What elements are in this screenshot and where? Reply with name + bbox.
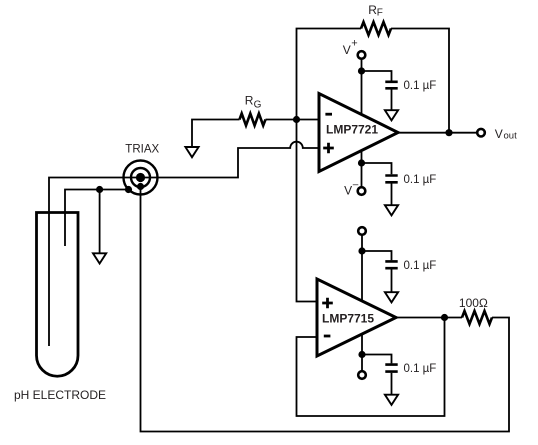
TRIAX inner shield circle [131, 168, 150, 187]
terminal V- circle [358, 187, 366, 195]
wire: C1 to ground [391, 90, 393, 111]
svg-text:TRIAX: TRIAX [125, 143, 159, 155]
TRIAX center pin dot [136, 173, 145, 182]
svg-text:V: V [343, 43, 351, 57]
op-amp U2 LMP7715 [317, 279, 396, 356]
svg-text:–: – [353, 179, 359, 190]
wire: outer shield to electrode reference + ground [65, 190, 129, 247]
svg-text:LMP7721: LMP7721 [326, 122, 378, 136]
wire: shield ground drop [99, 190, 101, 254]
wire: C4 to ground [391, 373, 393, 395]
svg-text:+: + [351, 38, 357, 50]
svg-text:R: R [245, 94, 254, 108]
ground (C4) [385, 395, 398, 405]
wire: U2 output to 100 ohm resistor [396, 317, 462, 319]
U1 minus sign [325, 113, 332, 116]
svg-text:100Ω: 100Ω [459, 296, 488, 310]
terminal U2 top supply circle [358, 227, 366, 235]
wire: C3 to ground [391, 269, 393, 292]
node U2 bottom supply junction [358, 351, 365, 358]
resistor RF [361, 22, 391, 35]
ground (RG) [185, 147, 198, 157]
wire: U1 output to Vout [398, 132, 477, 134]
wire: V- to bypass cap C2 [362, 163, 392, 174]
svg-text:G: G [254, 99, 262, 110]
wire: feedback top right + right vertical to output [391, 29, 449, 133]
op-amp U1 LMP7721 [319, 94, 398, 172]
capacitor C2 0.1uF [385, 176, 397, 183]
wire: RG left lead + ground drop [192, 120, 240, 148]
node: outer shield connection dot [125, 186, 132, 193]
TRIAX outer shield circle [124, 161, 158, 195]
svg-text:0.1 µF: 0.1 µF [404, 363, 437, 375]
capacitor C3 0.1uF [385, 261, 397, 268]
wire: TRIAX center to U1 + input (with hop over guard wire) [49, 142, 319, 346]
node shield/ground junction [96, 186, 103, 193]
svg-text:LMP7715: LMP7715 [322, 311, 374, 325]
ground (C1) [385, 110, 398, 120]
terminal U2 bottom supply circle [358, 371, 366, 379]
node V- junction [358, 159, 365, 166]
node: output/feedback junction [445, 129, 452, 136]
node: inner shield connection dot [137, 183, 144, 190]
wire: C2 to ground [391, 184, 393, 206]
wire: guard node vertical from node A down to U2 + input [297, 120, 318, 302]
svg-text:V: V [344, 184, 352, 198]
wire: RG to inverting input of U1 [266, 119, 320, 121]
pH electrode tube [37, 213, 79, 377]
resistor 100 ohm [462, 311, 492, 324]
U1 plus sign [323, 143, 334, 154]
U2 plus sign [322, 298, 333, 309]
U2 minus sign [324, 335, 331, 338]
resistor RG [240, 114, 266, 126]
wire: feedback left vertical + top run to RF [297, 29, 362, 120]
svg-text:0.1 µF: 0.1 µF [404, 260, 437, 272]
wire: V+ to bypass cap C1 [362, 71, 392, 81]
ground (C3) [385, 292, 398, 302]
node U2 top supply junction [358, 247, 365, 254]
capacitor C1 0.1uF [385, 82, 397, 89]
svg-text:pH ELECTRODE: pH ELECTRODE [14, 388, 106, 402]
node A: RG/RF/inverting input junction [293, 116, 300, 123]
svg-text:F: F [377, 8, 383, 19]
terminal V+ circle [358, 51, 366, 59]
terminal Vout circle [477, 129, 485, 137]
wire: U2 feedback loop output to inverting input [297, 318, 445, 417]
wire: V- stem from U1 [361, 151, 363, 188]
wire: U2 top supply stem [361, 235, 363, 301]
ground (shield) [93, 253, 106, 263]
wire: V+ stem into U1 [361, 59, 363, 115]
wire: U2 bottom supply stem [361, 334, 363, 371]
svg-text:out: out [504, 131, 518, 142]
ground (C2) [385, 205, 398, 215]
capacitor C4 0.1uF [385, 365, 397, 372]
svg-text:0.1 µF: 0.1 µF [404, 174, 437, 186]
wire: 100 ohm to bottom rail to TRIAX inner shield [141, 187, 510, 432]
svg-text:0.1 µF: 0.1 µF [404, 80, 437, 92]
node V+ junction [358, 67, 365, 74]
wire: supply to bypass cap C3 [362, 251, 392, 260]
svg-text:V: V [495, 127, 503, 141]
node U2 output junction [441, 314, 448, 321]
wire: supply to bypass cap C4 [362, 355, 392, 364]
